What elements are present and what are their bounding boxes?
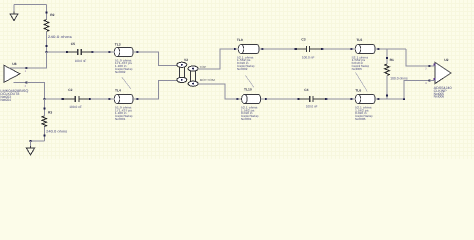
wire transformer BOTTOM to TL10 xyxy=(198,84,241,100)
wire C3 to TL5 xyxy=(321,48,355,50)
transmission line TL9 xyxy=(237,38,259,71)
wire TL5 to U2 jog xyxy=(375,48,406,50)
U2 pin 2 stub xyxy=(425,64,435,71)
wire top-left rail to C5 xyxy=(47,51,69,53)
transmission line TL10 xyxy=(241,87,261,121)
svg-text:R2: R2 xyxy=(50,13,54,17)
ground GND1 top-left xyxy=(10,5,18,21)
svg-text:Net005: Net005 xyxy=(352,67,363,71)
wire TL10 to C4 xyxy=(261,98,300,100)
svg-text:U2: U2 xyxy=(444,58,448,62)
U2 pin 3 stub xyxy=(425,78,435,85)
transmission line TL3 xyxy=(114,42,133,74)
transmission line TL6 xyxy=(355,88,375,121)
svg-text:C4: C4 xyxy=(304,88,308,92)
svg-text:C2: C2 xyxy=(68,88,72,92)
svg-text:BOTTOM: BOTTOM xyxy=(200,78,216,82)
svg-text:TL9: TL9 xyxy=(237,38,243,42)
wire TL3 to transformer top-left xyxy=(133,51,177,66)
resistor R2 xyxy=(44,5,72,53)
label leader line TL4 xyxy=(122,77,131,89)
label BOTTOM net xyxy=(200,78,216,82)
wire TL6 to node xyxy=(375,98,404,100)
wire U8 pin1 to top rail xyxy=(27,52,47,68)
svg-text:TL5: TL5 xyxy=(356,38,362,42)
wire R3 to ground xyxy=(29,140,44,142)
svg-text:TOP: TOP xyxy=(199,65,206,69)
node junction bottom-left xyxy=(43,98,45,100)
wire bottom-left rail to C2 xyxy=(45,98,64,100)
svg-text:Net002: Net002 xyxy=(237,67,248,71)
svg-text:TL3: TL3 xyxy=(115,42,121,46)
label leader line TL10 xyxy=(246,76,255,88)
svg-text:V2: V2 xyxy=(184,58,188,62)
svg-text:Net001: Net001 xyxy=(115,117,126,121)
svg-text:100.0 nF: 100.0 nF xyxy=(306,105,318,109)
op-amp U8 LMK04828B driver xyxy=(0,62,28,102)
wire transformer TOP to TL9 xyxy=(198,48,238,69)
label leader line TL6 xyxy=(356,72,368,91)
svg-text:Net006: Net006 xyxy=(355,117,366,121)
capacitor C2 xyxy=(63,88,90,109)
svg-text:TL4: TL4 xyxy=(115,88,121,92)
svg-text:U8: U8 xyxy=(12,62,16,66)
svg-text:R3: R3 xyxy=(48,111,52,115)
resistor R1 xyxy=(385,49,408,99)
svg-text:100.0 ohms: 100.0 ohms xyxy=(390,76,408,80)
wire U8 pin2 to bottom rail xyxy=(27,83,45,99)
svg-text:Net002: Net002 xyxy=(115,70,126,74)
U8 pin 2 output stub xyxy=(14,82,28,89)
svg-text:Net001: Net001 xyxy=(241,117,252,121)
ground GND2 bottom-left xyxy=(27,141,35,155)
svg-text:100.0 nF: 100.0 nF xyxy=(75,59,87,63)
transmission line TL4 xyxy=(114,88,133,121)
svg-text:C5: C5 xyxy=(71,42,75,46)
svg-text:R1: R1 xyxy=(390,58,394,62)
op-amp U2 ADC clock input xyxy=(434,58,452,99)
wire TL4 to transformer bottom-left xyxy=(133,81,177,101)
transformer V2 balun xyxy=(177,58,198,86)
label TOP net xyxy=(199,65,206,69)
transmission line TL5 xyxy=(352,38,376,71)
wire ground-top rail xyxy=(14,4,47,6)
capacitor C5 xyxy=(67,42,93,63)
wire TL9 to C3 xyxy=(259,48,297,50)
svg-text:Net006: Net006 xyxy=(434,95,445,99)
wire bottom to U2 pin 3 xyxy=(403,79,431,100)
capacitor C4 xyxy=(299,88,327,109)
wire C5 to TL3 xyxy=(91,51,114,53)
svg-text:C3: C3 xyxy=(301,38,305,42)
svg-text:TL6: TL6 xyxy=(355,88,361,92)
svg-text:Net004: Net004 xyxy=(0,98,11,102)
resistor R3 xyxy=(42,99,68,141)
node junction below R2 xyxy=(45,51,47,53)
wire top to U2 pin 2 xyxy=(406,49,431,67)
svg-text:TL10: TL10 xyxy=(244,87,252,91)
capacitor C3 xyxy=(296,38,323,60)
wire C4 to TL6 xyxy=(325,98,355,100)
U8 pin 1 output stub xyxy=(9,67,28,73)
svg-text:100.0 nF: 100.0 nF xyxy=(302,55,315,59)
svg-text:240.0 ohms: 240.0 ohms xyxy=(46,129,67,133)
svg-text:240.0 ohms: 240.0 ohms xyxy=(48,35,72,39)
wire C2 to TL4 xyxy=(89,98,114,100)
svg-text:100.0 nF: 100.0 nF xyxy=(69,105,82,109)
